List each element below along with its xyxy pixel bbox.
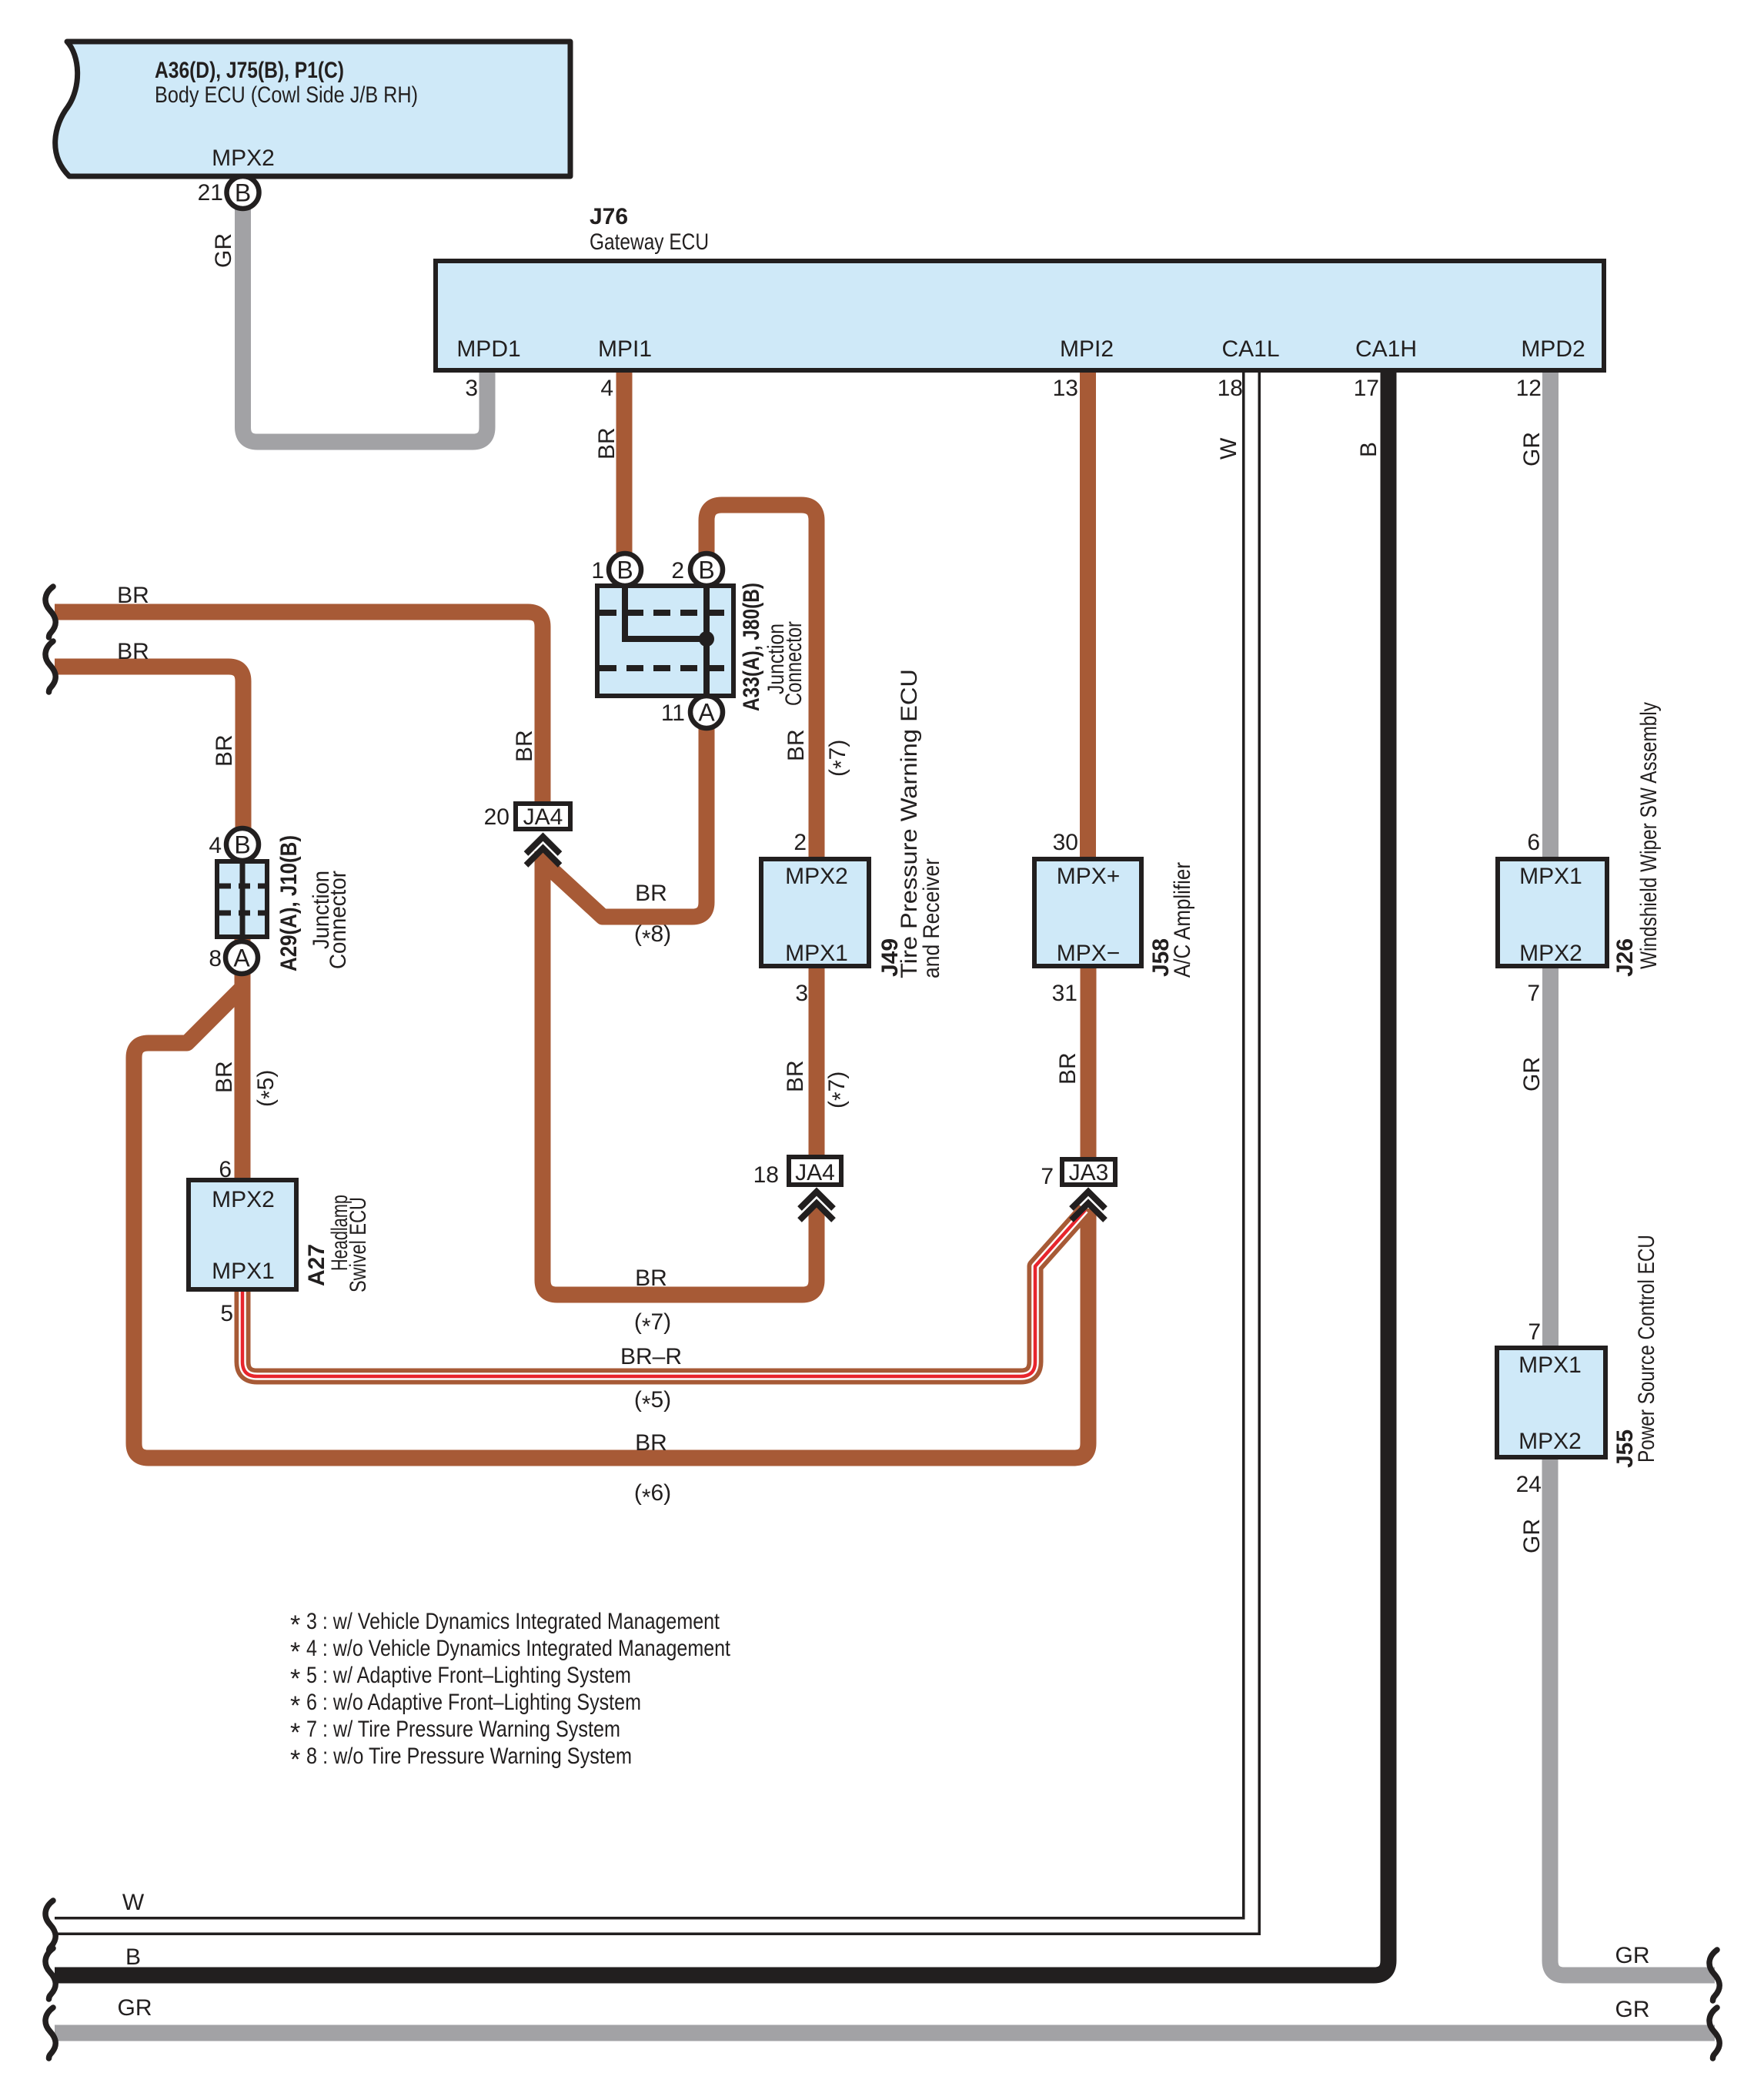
svg-text:A27: A27 <box>304 1244 329 1286</box>
svg-text:MPX2: MPX2 <box>1519 941 1582 966</box>
svg-text:CA1H: CA1H <box>1355 336 1417 362</box>
svg-text:and Receiver: and Receiver <box>919 858 944 978</box>
svg-text:BR: BR <box>117 583 149 608</box>
svg-text:BR: BR <box>635 1266 667 1291</box>
svg-text:MPX+: MPX+ <box>1057 864 1121 889</box>
svg-text:3: 3 <box>795 981 808 1006</box>
svg-text:MPD2: MPD2 <box>1521 336 1585 362</box>
svg-text:MPX1: MPX1 <box>1519 864 1582 889</box>
svg-text:GR: GR <box>1519 432 1545 466</box>
svg-text:JA4: JA4 <box>523 804 563 830</box>
svg-text:6: 6 <box>219 1157 232 1182</box>
svg-text:A33(A), J80(B): A33(A), J80(B) <box>739 583 764 711</box>
svg-text:BR: BR <box>783 729 809 761</box>
svg-text:7: 7 <box>1528 1319 1541 1345</box>
svg-text:GR: GR <box>118 1995 152 2021</box>
svg-text:5 : w/ Adaptive Front–Lighting: 5 : w/ Adaptive Front–Lighting System <box>306 1663 631 1688</box>
svg-text:MPX2: MPX2 <box>1518 1429 1582 1454</box>
svg-text:11: 11 <box>661 700 685 726</box>
svg-text:J26: J26 <box>1612 938 1638 977</box>
svg-text:12: 12 <box>1516 376 1542 401</box>
svg-text:*: * <box>290 1745 300 1774</box>
svg-text:*: * <box>290 1637 300 1667</box>
svg-text:13: 13 <box>1053 376 1078 401</box>
svg-text:5: 5 <box>220 1301 233 1326</box>
svg-text:A29(A), J10(B): A29(A), J10(B) <box>276 835 302 971</box>
svg-text:W: W <box>1216 437 1241 460</box>
svg-text:GR: GR <box>1615 1943 1650 1968</box>
svg-text:8: 8 <box>209 946 222 971</box>
svg-text:7 : w/ Tire Pressure Warning S: 7 : w/ Tire Pressure Warning System <box>306 1717 620 1742</box>
svg-text:B: B <box>1356 442 1381 457</box>
svg-text:BR: BR <box>212 1061 237 1093</box>
svg-text:BR: BR <box>117 639 149 664</box>
svg-text:20: 20 <box>484 804 509 830</box>
svg-text:3: 3 <box>465 376 478 401</box>
svg-text:4: 4 <box>600 376 613 401</box>
svg-text:*: * <box>290 1610 300 1640</box>
svg-text:MPX2: MPX2 <box>785 864 848 889</box>
svg-text:BR: BR <box>783 1060 808 1092</box>
svg-text:A/C Amplifier: A/C Amplifier <box>1170 862 1195 978</box>
svg-text:BR: BR <box>635 1430 667 1456</box>
svg-text:6: 6 <box>1527 830 1540 855</box>
svg-text:GR: GR <box>1519 1057 1545 1092</box>
svg-text:MPX1: MPX1 <box>785 941 848 966</box>
svg-text:GR: GR <box>211 233 236 268</box>
svg-text:18: 18 <box>1218 376 1243 401</box>
svg-text:24: 24 <box>1516 1472 1542 1497</box>
svg-text:3 : w/ Vehicle Dynamics Integr: 3 : w/ Vehicle Dynamics Integrated Manag… <box>306 1609 720 1634</box>
svg-text:B: B <box>235 179 251 207</box>
svg-text:8 : w/o Tire Pressure Warning: 8 : w/o Tire Pressure Warning System <box>306 1744 632 1769</box>
svg-text:MPD1: MPD1 <box>456 336 520 362</box>
svg-text:B: B <box>616 557 633 584</box>
svg-text:18: 18 <box>753 1162 779 1188</box>
svg-text:A: A <box>698 699 715 727</box>
svg-text:BR: BR <box>594 427 620 460</box>
svg-text:2: 2 <box>793 830 807 855</box>
svg-text:(*7): (*7) <box>824 1072 854 1108</box>
svg-text:MPX2: MPX2 <box>212 145 275 171</box>
svg-text:7: 7 <box>1527 981 1540 1006</box>
svg-text:1: 1 <box>591 558 604 583</box>
svg-text:Body ECU (Cowl Side J/B RH): Body ECU (Cowl Side J/B RH) <box>155 82 418 108</box>
svg-text:BR: BR <box>212 734 237 767</box>
svg-text:Windshield Wiper SW Assembly: Windshield Wiper SW Assembly <box>1636 702 1662 969</box>
svg-text:MPX−: MPX− <box>1057 941 1121 966</box>
svg-text:B: B <box>234 831 250 859</box>
svg-text:*: * <box>290 1691 300 1720</box>
svg-text:A36(D), J75(B), P1(C): A36(D), J75(B), P1(C) <box>155 58 344 83</box>
svg-text:Gateway ECU: Gateway ECU <box>590 229 709 255</box>
svg-text:30: 30 <box>1053 830 1078 855</box>
svg-text:BR–R: BR–R <box>620 1344 682 1369</box>
svg-text:4: 4 <box>209 833 222 858</box>
svg-text:7: 7 <box>1041 1164 1054 1189</box>
svg-text:17: 17 <box>1354 376 1379 401</box>
svg-text:GR: GR <box>1615 1997 1650 2022</box>
svg-text:21: 21 <box>198 180 223 206</box>
svg-text:2: 2 <box>671 558 684 583</box>
svg-text:MPX2: MPX2 <box>212 1187 275 1212</box>
svg-text:BR: BR <box>512 730 537 762</box>
svg-text:Swivel ECU: Swivel ECU <box>346 1197 371 1292</box>
svg-text:*: * <box>290 1718 300 1747</box>
svg-text:MPX1: MPX1 <box>1518 1352 1582 1378</box>
svg-text:CA1L: CA1L <box>1221 336 1279 362</box>
svg-text:JA3: JA3 <box>1069 1160 1109 1185</box>
svg-text:(*5): (*5) <box>253 1070 282 1107</box>
svg-text:MPI2: MPI2 <box>1060 336 1114 362</box>
svg-text:GR: GR <box>1519 1519 1545 1553</box>
svg-text:MPI1: MPI1 <box>598 336 652 362</box>
svg-text:(*7): (*7) <box>825 740 854 777</box>
svg-text:6 : w/o Adaptive Front–Lightin: 6 : w/o Adaptive Front–Lighting System <box>306 1690 641 1715</box>
svg-text:4 : w/o Vehicle Dynamics Integ: 4 : w/o Vehicle Dynamics Integrated Mana… <box>306 1636 731 1661</box>
svg-text:MPX1: MPX1 <box>212 1259 275 1284</box>
svg-text:W: W <box>122 1890 145 1915</box>
svg-text:BR: BR <box>1055 1052 1081 1085</box>
svg-text:31: 31 <box>1052 981 1077 1006</box>
svg-text:*: * <box>290 1664 300 1693</box>
svg-text:Connector: Connector <box>326 871 351 969</box>
svg-text:B: B <box>698 557 714 584</box>
svg-text:Connector: Connector <box>781 621 807 706</box>
svg-text:JA4: JA4 <box>795 1160 835 1185</box>
svg-text:B: B <box>125 1944 141 1970</box>
svg-text:A: A <box>233 945 250 972</box>
svg-text:J76: J76 <box>590 204 628 229</box>
svg-text:BR: BR <box>635 881 667 906</box>
svg-text:Power Source Control ECU: Power Source Control ECU <box>1634 1235 1659 1463</box>
